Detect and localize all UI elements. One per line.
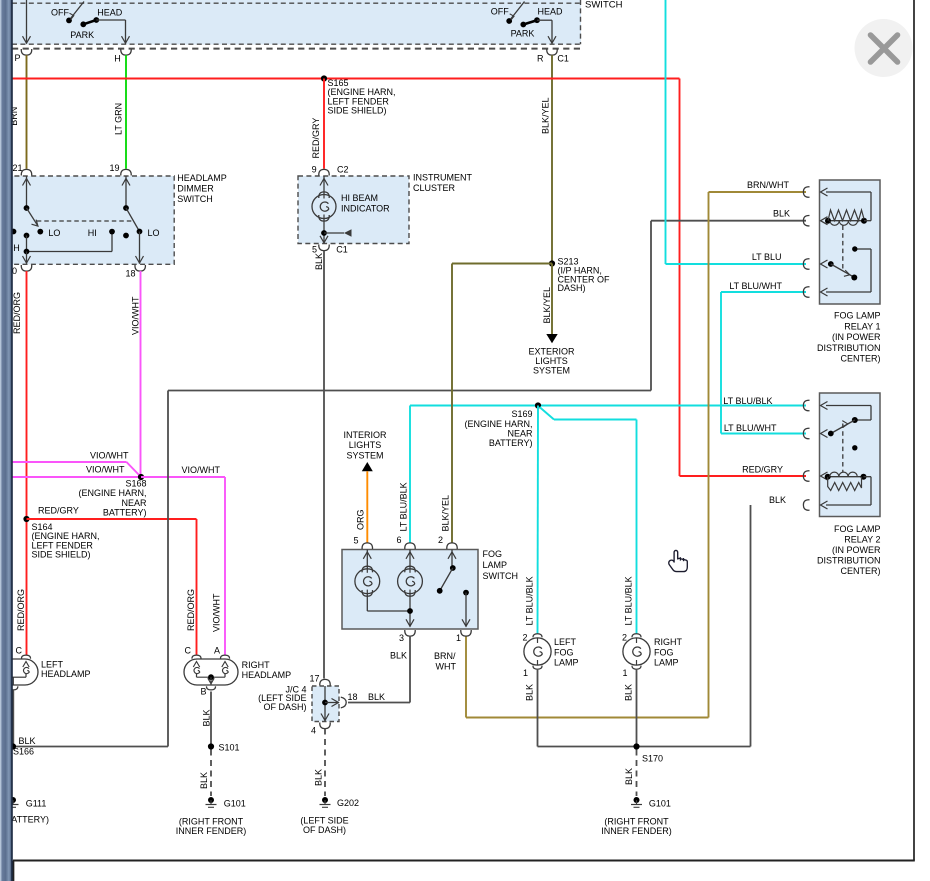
splice S168 bbox=[138, 474, 144, 480]
svg-text:H: H bbox=[13, 243, 20, 253]
pin R connector C1 bbox=[547, 49, 557, 55]
wire BLK from fog lamp relay 1 pin 2 to S166 bbox=[13, 221, 806, 747]
svg-text:BLK: BLK bbox=[19, 736, 36, 746]
J/C 4 pin 18 connector bbox=[341, 697, 346, 708]
relay 1 armature dashed link bbox=[842, 226, 844, 271]
svg-text:BLK: BLK bbox=[199, 772, 209, 789]
svg-text:3: 3 bbox=[399, 633, 404, 643]
svg-text:CENTER): CENTER) bbox=[841, 354, 881, 364]
headlamp switch internal wire to pin P bbox=[23, 0, 31, 44]
svg-text:INNER FENDER): INNER FENDER) bbox=[601, 826, 672, 836]
relay 2 pin 4 connector BLK bbox=[803, 500, 809, 510]
svg-text:BATTERY): BATTERY) bbox=[489, 438, 533, 448]
wire LT BLU/WHT linking relay 1 pin 4 and relay 2 pin 2 bbox=[721, 292, 806, 434]
dimmer internal switch (right gang) bbox=[122, 176, 160, 264]
ground G101 right front inner fender (fog lamps) bbox=[634, 797, 640, 803]
svg-text:WHT: WHT bbox=[436, 662, 457, 672]
right fog lamp bbox=[623, 634, 650, 669]
svg-text:C2: C2 bbox=[337, 165, 349, 175]
dimmer pin 19 connector bbox=[121, 169, 131, 175]
dimmer pin 18 connector bbox=[135, 265, 145, 271]
wire BLK from relay 2 pin 4 down to S170 bbox=[750, 505, 752, 747]
svg-text:BLK: BLK bbox=[314, 253, 324, 270]
fog switch illumination lamp (pin 5) bbox=[355, 550, 410, 612]
svg-text:SWITCH: SWITCH bbox=[177, 194, 213, 204]
connector row dashed line C1 bbox=[12, 48, 581, 50]
svg-text:CENTER): CENTER) bbox=[841, 566, 881, 576]
left fog lamp bbox=[524, 634, 551, 669]
svg-text:19: 19 bbox=[110, 163, 120, 173]
svg-text:SIDE SHIELD): SIDE SHIELD) bbox=[32, 550, 91, 560]
svg-text:C1: C1 bbox=[336, 244, 348, 254]
wire BLK/YEL branch from fog lamp switch pin 2 to S213 bbox=[452, 263, 552, 265]
svg-text:OFF: OFF bbox=[491, 6, 509, 16]
instrument cluster box bbox=[298, 176, 409, 244]
svg-text:9: 9 bbox=[312, 165, 317, 175]
svg-text:RELAY 2: RELAY 2 bbox=[844, 534, 880, 544]
svg-text:BLK: BLK bbox=[368, 692, 385, 702]
svg-text:H: H bbox=[114, 54, 121, 64]
wire VIO/WHT from S168 to right headlamp pin A bbox=[141, 476, 225, 478]
svg-text:S168: S168 bbox=[125, 479, 146, 489]
wire BLK/YEL from S213 down to exterior lights system arrow bbox=[551, 264, 553, 335]
J/C 4 pin 17 connector bbox=[320, 679, 330, 685]
svg-text:HEADLAMP: HEADLAMP bbox=[242, 670, 292, 680]
ground G101 right front inner fender bbox=[208, 797, 214, 803]
fog switch pin 2 connector bbox=[447, 543, 457, 549]
svg-text:INSTRUMENT: INSTRUMENT bbox=[413, 173, 472, 183]
hi beam indicator lamp U-lamp bbox=[312, 176, 390, 221]
ground G202 left side of dash bbox=[322, 797, 328, 803]
svg-text:P: P bbox=[15, 53, 21, 63]
fog switch pin 3 connector bbox=[405, 630, 415, 636]
svg-text:LT BLU: LT BLU bbox=[752, 252, 782, 262]
svg-text:2: 2 bbox=[438, 535, 443, 545]
svg-text:VIO/WHT: VIO/WHT bbox=[86, 464, 125, 474]
wire BLK/YEL from fog lamp switch pin 2 up to S213 branch bbox=[451, 264, 453, 544]
svg-text:FOG: FOG bbox=[554, 647, 574, 657]
svg-text:HEAD: HEAD bbox=[538, 6, 564, 16]
wire RED/ORG from S164 to right headlamp pin C bbox=[27, 518, 197, 520]
svg-text:S166: S166 bbox=[13, 747, 34, 757]
svg-text:BATTERY): BATTERY) bbox=[103, 507, 147, 517]
ground G111 bbox=[10, 797, 16, 803]
svg-text:VIO/WHT: VIO/WHT bbox=[211, 593, 221, 632]
svg-text:S101: S101 bbox=[219, 743, 240, 753]
wire RED/ORG from dimmer pin 20 down to left headlamp pin C bbox=[26, 271, 28, 656]
svg-text:BRN/: BRN/ bbox=[434, 651, 456, 661]
cluster pin 9 connector C2 bbox=[319, 169, 329, 175]
wire LT GRN from pin H to dimmer pin 19 bbox=[125, 55, 127, 169]
fog lamp switch box bbox=[342, 550, 478, 630]
headlamp dimmer switch box bbox=[6, 176, 174, 264]
svg-text:OFF: OFF bbox=[51, 7, 69, 17]
pin P connector bbox=[21, 49, 31, 55]
svg-text:4: 4 bbox=[311, 726, 316, 736]
wire VIO/WHT from dimmer pin 18 down to S168 bbox=[140, 271, 142, 477]
relay 2 pin 1 connector LT BLU/BLK bbox=[803, 400, 809, 410]
svg-text:BLK/YEL: BLK/YEL bbox=[542, 287, 552, 324]
svg-text:2: 2 bbox=[622, 633, 627, 643]
svg-text:18: 18 bbox=[348, 692, 358, 702]
svg-text:SIDE SHIELD): SIDE SHIELD) bbox=[328, 106, 387, 116]
fog switch output contact (pin 1) bbox=[462, 590, 470, 627]
wire BLK dashed from S170 to ground G101 bbox=[636, 750, 638, 797]
svg-text:BLK: BLK bbox=[390, 651, 407, 661]
J/C 4 pin 4 connector bbox=[320, 723, 330, 729]
svg-text:EXTERIOR: EXTERIOR bbox=[528, 347, 575, 357]
wire BRN from pin P to dimmer pin 21 bbox=[26, 55, 28, 169]
diagram border right bbox=[913, 0, 915, 861]
wire RED/GRY from S165 to instrument cluster pin 9 bbox=[323, 79, 325, 169]
wire LT BLU/BLK branch from S169 to right fog lamp bbox=[540, 407, 637, 634]
splice S170 bbox=[633, 743, 639, 749]
svg-text:LO: LO bbox=[148, 228, 160, 238]
fog switch indicator lamp (pin 6) bbox=[398, 550, 423, 627]
pin H connector bbox=[121, 49, 131, 55]
wire BLK from cluster pin 5 down to J/C 4 pin 17 bbox=[323, 251, 325, 679]
svg-text:6: 6 bbox=[396, 535, 401, 545]
svg-text:FOG LAMP: FOG LAMP bbox=[834, 524, 881, 534]
wire BLK from right headlamp pin B to S101 bbox=[210, 692, 212, 747]
svg-text:A: A bbox=[214, 646, 220, 656]
svg-text:ORG: ORG bbox=[355, 509, 365, 530]
J/C 4 internal bus bbox=[321, 686, 339, 721]
wire RED feed line (horizontal power wire) bbox=[12, 78, 680, 80]
fog switch contact (pin 2) and lever bbox=[437, 550, 456, 594]
svg-text:LT BLU/WHT: LT BLU/WHT bbox=[724, 423, 777, 433]
svg-text:LT GRN: LT GRN bbox=[114, 103, 124, 135]
svg-text:1: 1 bbox=[622, 668, 627, 678]
headlamp switch box (top, cut off) bbox=[12, 0, 581, 45]
svg-text:BLK: BLK bbox=[773, 209, 790, 219]
svg-text:BLK: BLK bbox=[623, 684, 633, 701]
svg-text:LIGHTS: LIGHTS bbox=[349, 440, 382, 450]
svg-text:RIGHT: RIGHT bbox=[654, 637, 683, 647]
dimmer pin 21 connector bbox=[21, 169, 31, 175]
svg-text:FOG: FOG bbox=[654, 647, 674, 657]
close button bbox=[855, 19, 913, 77]
svg-text:RED/GRY: RED/GRY bbox=[742, 465, 783, 475]
wire BLK/YEL from pin R down to S213 bbox=[551, 55, 553, 263]
svg-text:G101: G101 bbox=[649, 799, 671, 809]
svg-text:LT BLU/BLK: LT BLU/BLK bbox=[398, 482, 408, 531]
relay 1 pin 2 connector BLK bbox=[803, 215, 809, 225]
fog switch pin 1 connector bbox=[461, 630, 471, 636]
svg-text:ATTERY): ATTERY) bbox=[11, 815, 49, 825]
svg-text:2: 2 bbox=[522, 633, 527, 643]
wire BLK dashed from S101 to ground G101 bbox=[210, 750, 212, 797]
relay 2 internal link pin1 to fixed contact bbox=[826, 406, 871, 421]
svg-text:G101: G101 bbox=[224, 799, 246, 809]
wire BLK dashed from J/C 4 pin 4 to ground G202 bbox=[324, 729, 326, 797]
svg-text:RED/ORG: RED/ORG bbox=[12, 292, 22, 334]
svg-text:LT BLU/BLK: LT BLU/BLK bbox=[623, 576, 633, 625]
svg-text:(ENGINE HARN,: (ENGINE HARN, bbox=[78, 488, 146, 498]
svg-text:LT BLU/WHT: LT BLU/WHT bbox=[729, 281, 782, 291]
svg-text:OF DASH): OF DASH) bbox=[303, 825, 346, 835]
svg-text:PARK: PARK bbox=[70, 30, 94, 40]
svg-text:VIO/WHT: VIO/WHT bbox=[182, 465, 221, 475]
svg-text:HEAD: HEAD bbox=[97, 7, 123, 17]
wire LT BLU from top edge down to relay 1 pin 3 bbox=[666, 0, 807, 264]
fog lamp relay 2 box bbox=[820, 393, 881, 517]
left headlamp (cut by page edge) bbox=[0, 655, 38, 746]
dimmer mechanical link (dashed) bbox=[37, 220, 134, 222]
svg-text:RED/ORG: RED/ORG bbox=[186, 589, 196, 631]
svg-text:BLK: BLK bbox=[624, 768, 634, 785]
svg-text:DISTRIBUTION: DISTRIBUTION bbox=[817, 555, 881, 565]
svg-text:BLK: BLK bbox=[314, 769, 324, 786]
fog lamp relay 1 box bbox=[820, 180, 881, 304]
svg-text:(IN POWER: (IN POWER bbox=[832, 332, 881, 342]
diagram border bottom bbox=[13, 860, 915, 862]
svg-text:RED/ORG: RED/ORG bbox=[16, 589, 26, 631]
fog switch pin 5 connector bbox=[362, 543, 372, 549]
svg-text:DISTRIBUTION: DISTRIBUTION bbox=[817, 343, 881, 353]
relay 2 switch contacts bbox=[828, 417, 858, 450]
wire BLK from left fog lamp to S170 bbox=[538, 670, 751, 747]
svg-text:DIMMER: DIMMER bbox=[177, 184, 214, 194]
svg-text:FOG LAMP: FOG LAMP bbox=[834, 311, 881, 321]
svg-text:INTERIOR: INTERIOR bbox=[343, 430, 387, 440]
svg-text:BLK/YEL: BLK/YEL bbox=[541, 97, 551, 134]
svg-text:LT BLU/BLK: LT BLU/BLK bbox=[723, 396, 772, 406]
svg-text:BLK: BLK bbox=[769, 495, 786, 505]
svg-text:RED/GRY: RED/GRY bbox=[38, 506, 79, 516]
svg-text:C: C bbox=[16, 646, 23, 656]
cluster pin 5 connector C1 bbox=[319, 245, 329, 251]
relay 1 internal link pin1 to coil bbox=[826, 192, 871, 221]
fog switch pin 6 connector bbox=[405, 543, 415, 549]
svg-text:HEADLAMP: HEADLAMP bbox=[177, 173, 227, 183]
wire ORG from interior lights to fog lamp switch pin 5 bbox=[366, 471, 368, 543]
wire VIO/WHT upper stub from left edge to S168 bbox=[12, 461, 127, 463]
svg-text:SYSTEM: SYSTEM bbox=[533, 366, 570, 376]
svg-text:G202: G202 bbox=[337, 798, 359, 808]
svg-text:S170: S170 bbox=[642, 754, 663, 764]
wire LT BLU/BLK from fog lamp switch pin 6 to S169 and relay 2 pin 1 bbox=[410, 406, 806, 544]
right headlamp bbox=[184, 655, 238, 690]
svg-text:RIGHT: RIGHT bbox=[242, 660, 271, 670]
svg-text:CLUSTER: CLUSTER bbox=[413, 183, 456, 193]
svg-text:NEAR: NEAR bbox=[121, 498, 147, 508]
svg-text:LEFT: LEFT bbox=[41, 660, 64, 670]
svg-text:C: C bbox=[185, 646, 192, 656]
relay 1 switch contacts bbox=[828, 246, 858, 280]
svg-text:LT BLU/BLK: LT BLU/BLK bbox=[524, 576, 534, 625]
svg-text:LAMP: LAMP bbox=[483, 560, 508, 570]
svg-text:VIO/WHT: VIO/WHT bbox=[90, 450, 129, 460]
svg-text:BLK: BLK bbox=[524, 684, 534, 701]
splice S213 bbox=[549, 260, 555, 266]
dimmer pin 20 connector bbox=[21, 265, 31, 271]
svg-text:SWITCH: SWITCH bbox=[483, 571, 519, 581]
headlamp switch contacts OFF/PARK/HEAD (left gang) bbox=[51, 2, 130, 44]
svg-text:R: R bbox=[537, 54, 544, 64]
mouse hand cursor bbox=[669, 550, 688, 571]
svg-text:OF DASH): OF DASH) bbox=[263, 702, 306, 712]
wire BLK from right fog lamp to S170 bbox=[636, 670, 638, 747]
svg-text:B: B bbox=[201, 687, 207, 697]
svg-text:NEAR: NEAR bbox=[507, 428, 533, 438]
svg-text:LEFT: LEFT bbox=[554, 637, 577, 647]
svg-text:(ENGINE HARN,: (ENGINE HARN, bbox=[464, 419, 532, 429]
svg-text:S169: S169 bbox=[511, 409, 532, 419]
relay 1 internal link pin4 to fixed contact bbox=[826, 249, 871, 292]
svg-text:BRN/WHT: BRN/WHT bbox=[747, 180, 789, 190]
svg-text:PARK: PARK bbox=[511, 29, 535, 39]
svg-text:VIO/WHT: VIO/WHT bbox=[131, 296, 141, 335]
relay 1 pin 3 connector LT BLU bbox=[803, 259, 809, 269]
svg-text:LAMP: LAMP bbox=[554, 658, 579, 668]
relay 1 pin 4 connector LT BLU/WHT bbox=[803, 287, 809, 297]
splice S164 bbox=[23, 516, 29, 522]
splice S165 bbox=[321, 75, 327, 81]
svg-text:INNER FENDER): INNER FENDER) bbox=[176, 826, 247, 836]
splice S169 bbox=[535, 402, 541, 408]
wire BLK from fog switch pin 3 to J/C 4 pin 18 bbox=[348, 636, 410, 703]
svg-text:BLK/YEL: BLK/YEL bbox=[440, 495, 450, 532]
svg-text:18: 18 bbox=[125, 269, 135, 279]
svg-text:BLK: BLK bbox=[202, 709, 212, 726]
svg-text:FOG: FOG bbox=[483, 549, 503, 559]
svg-text:LIGHTS: LIGHTS bbox=[535, 356, 568, 366]
svg-text:LO: LO bbox=[48, 228, 60, 238]
svg-text:5: 5 bbox=[312, 244, 317, 254]
svg-text:RED/GRY: RED/GRY bbox=[311, 118, 321, 159]
relay 2 pin 3 connector RED/GRY bbox=[803, 471, 809, 481]
wire BRN/WHT from fog lamp switch pin 1 to relay 1 pin 1 bbox=[466, 192, 806, 718]
svg-text:1: 1 bbox=[456, 633, 461, 643]
svg-text:HI: HI bbox=[88, 228, 97, 238]
splice S101 bbox=[208, 743, 214, 749]
relay 2 pin 2 connector LT BLU/WHT bbox=[803, 428, 809, 438]
relay 1 pin 1 connector BRN/WHT bbox=[803, 187, 809, 197]
svg-text:RELAY 1: RELAY 1 bbox=[844, 321, 880, 331]
svg-text:SWITCH: SWITCH bbox=[585, 0, 623, 11]
relay 2 armature dashed link bbox=[842, 424, 844, 473]
relay 2 coil bbox=[825, 472, 867, 490]
svg-text:INDICATOR: INDICATOR bbox=[341, 204, 390, 214]
svg-text:17: 17 bbox=[309, 674, 319, 684]
relay 1 coil bbox=[825, 210, 867, 225]
svg-text:DASH): DASH) bbox=[558, 283, 586, 293]
svg-text:C1: C1 bbox=[557, 54, 569, 64]
svg-text:21: 21 bbox=[12, 163, 22, 173]
svg-text:HEADLAMP: HEADLAMP bbox=[41, 669, 91, 679]
dimmer internal switch (left gang) bbox=[11, 176, 115, 264]
svg-text:LAMP: LAMP bbox=[654, 658, 679, 668]
wire LT BLU/BLK from S169 down to left fog lamp bbox=[537, 406, 540, 634]
svg-text:1: 1 bbox=[523, 668, 528, 678]
svg-text:(IN POWER: (IN POWER bbox=[832, 545, 881, 555]
splice S166 bbox=[10, 743, 16, 749]
junction connector J/C 4 box bbox=[312, 686, 339, 722]
svg-text:5: 5 bbox=[353, 536, 358, 546]
relay 2 internal link pin4 to coil bbox=[826, 477, 871, 505]
wire VIO/WHT lower stub from left edge to S168 bbox=[12, 476, 141, 478]
cluster internal node and branch arrow bbox=[320, 219, 352, 244]
svg-text:G111: G111 bbox=[26, 799, 47, 809]
svg-text:SYSTEM: SYSTEM bbox=[346, 451, 383, 461]
svg-text:HI BEAM: HI BEAM bbox=[341, 193, 378, 203]
headlamp switch contacts OFF/PARK/HEAD (right gang) bbox=[491, 2, 563, 44]
